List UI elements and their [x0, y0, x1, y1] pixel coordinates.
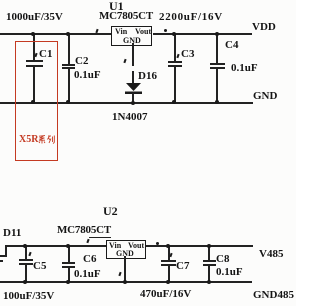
label C8 — [216, 254, 229, 265]
regulator U2 box — [106, 240, 146, 259]
U2 GND pin wire — [124, 256, 126, 282]
pin label Vout (U2) — [128, 242, 144, 250]
pin label GND (U2) — [116, 250, 134, 258]
stray dot above rail (U2) — [156, 242, 159, 245]
label C2 — [75, 56, 88, 67]
wire: bottom input rail — [5, 245, 106, 247]
tick left of U2 — [86, 239, 89, 243]
label U1 — [109, 0, 124, 12]
label U2 — [103, 205, 118, 217]
label C7 — [176, 261, 189, 272]
pin label Vin (U2) — [109, 242, 121, 250]
diode D16 with GND pin wire of U1 — [132, 43, 134, 66]
capacitor C6 — [68, 246, 70, 262]
regulator U1 box — [111, 26, 152, 46]
wire: GND rail — [0, 102, 253, 104]
label VDD — [252, 22, 276, 33]
pin label GND (U1) — [123, 37, 141, 45]
label 2200uF/16V — [159, 12, 223, 23]
label 0.1uF (C2) — [74, 70, 101, 81]
label 470uF/16V — [140, 289, 191, 300]
label 100uF/35V — [3, 291, 54, 302]
capacitor C1 — [33, 34, 35, 60]
artifact underline — [89, 237, 111, 239]
wire: U2 output rail — [146, 245, 253, 247]
label C4 — [225, 40, 238, 51]
label V485 — [259, 249, 283, 260]
stray dot above rail — [164, 29, 167, 32]
label C5 — [33, 261, 46, 272]
pin label Vout (U1) — [135, 28, 151, 36]
red annotation box — [15, 41, 58, 161]
label 0.1uF (C8) — [216, 267, 243, 278]
label 0.1uF (C4) — [231, 63, 258, 74]
capacitor C5 — [25, 246, 27, 259]
capacitor C3 — [174, 34, 176, 61]
wire: GND485 rail — [0, 281, 252, 283]
wire: U1 output rail — [153, 33, 252, 35]
capacitor C8 — [208, 246, 210, 260]
wire: top input rail — [0, 33, 113, 35]
label C3 — [181, 49, 194, 60]
tick on input rail — [95, 29, 98, 33]
label 1N4007 — [112, 112, 147, 123]
label GND — [253, 91, 277, 102]
CJK glyphs 系列 drawn as SVG — [38, 135, 55, 144]
label 0.1uF (C6) — [74, 269, 101, 280]
label D11 — [3, 228, 21, 239]
pin label Vin (U1) — [115, 28, 127, 36]
capacitor C7 — [168, 246, 170, 260]
wire: left input stub — [0, 255, 7, 257]
label MC7805CT (U2) — [57, 225, 111, 236]
label GND485 — [253, 290, 294, 301]
label MC7805CT — [99, 11, 153, 22]
label D16 — [138, 71, 157, 82]
label 1000uF/35V — [6, 12, 63, 23]
label C1 — [39, 49, 52, 60]
red label X5R series — [19, 135, 38, 145]
label C6 — [83, 254, 96, 265]
capacitor C4 — [216, 34, 218, 63]
capacitor C2 — [68, 34, 70, 64]
